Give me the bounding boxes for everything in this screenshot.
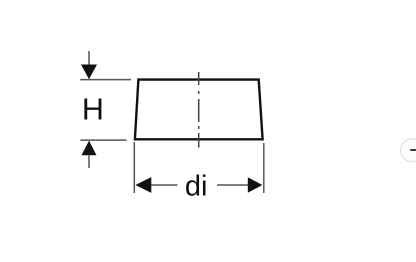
svg-text:di: di bbox=[185, 170, 208, 202]
svg-text:H: H bbox=[82, 93, 104, 127]
